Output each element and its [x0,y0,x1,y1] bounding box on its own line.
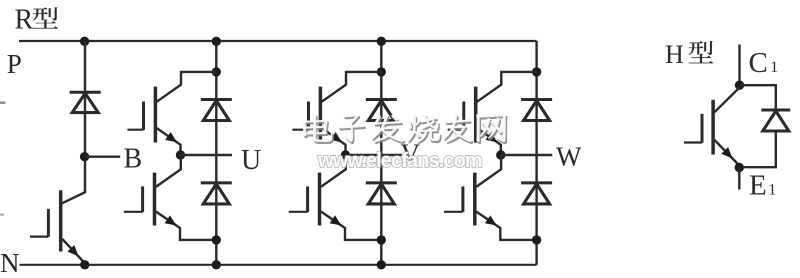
transistor Q4 (IGBT, V upper) [292,72,381,155]
svg-text:P: P [7,49,22,79]
node P junction on left branch [80,37,89,46]
wire E1 stub [738,168,740,190]
node E1 junction [735,163,744,172]
wire V midpoint stub [346,154,403,156]
svg-text:www.elecfans.com: www.elecfans.com [317,150,482,172]
transistor Q1 (IGBT, left R-branch) [30,190,85,263]
svg-text:B: B [124,144,143,175]
wire P rail [19,40,537,42]
node junction U collector tap [212,67,221,76]
transistor Q3 (IGBT, U lower) [124,155,217,240]
node junction V emitter tap [377,235,386,244]
wire W midpoint stub [501,154,553,156]
node U label [241,145,261,176]
transistor Q6 (IGBT, W upper) [448,72,537,155]
node junction W emitter tap [532,235,541,244]
wire H bottom link [740,131,776,167]
transistor Q2 (IGBT, U upper) [127,72,216,155]
node junction V midpoint [341,150,350,159]
node C1 label [749,47,779,79]
svg-text:U: U [241,145,261,176]
node junction W midpoint [496,150,505,159]
node junction V bottom rail [377,260,386,269]
node B label [124,144,143,175]
node P label [7,49,22,79]
node E1 label [749,169,776,201]
wire left branch vertical [84,41,86,192]
diode D7 (lower freewheel) [521,183,552,204]
node junction U top rail [212,37,221,46]
svg-text:N: N [0,248,20,278]
wire N rail [20,264,537,266]
label H type title [665,40,713,69]
diode D3 (lower freewheel) [201,183,232,204]
wire C1 stub [738,45,740,86]
node junction U emitter tap [212,235,221,244]
diode D5 (lower freewheel) [366,183,397,204]
diode D4 (upper freewheel) [366,100,397,121]
diode D2 (upper freewheel) [201,100,232,121]
wire H top link [740,85,776,110]
node W label [556,142,582,172]
label R type title [15,5,59,36]
node C1 junction [735,81,744,90]
node junction V top rail [377,37,386,46]
node junction V collector tap [377,67,386,76]
wire V leg vertical [380,41,382,265]
svg-text:H: H [665,40,684,69]
node N label [0,248,20,278]
node V label [401,139,421,169]
node N junction left [80,260,89,269]
transistor Q7 (IGBT, W lower) [444,155,536,240]
wire W leg vertical [535,41,537,265]
diode D6 (upper freewheel) [521,100,552,121]
svg-text:1: 1 [770,59,778,76]
node junction W collector tap [532,67,541,76]
svg-text:W: W [556,142,582,172]
wire U midpoint stub [181,154,233,156]
transistor Q5 (IGBT, V lower) [289,155,382,240]
diode D8 (H-type freewheel) [761,110,790,131]
svg-text:1: 1 [768,182,776,199]
svg-text:E: E [749,169,767,201]
node junction U midpoint [176,150,185,159]
wire node B stub [85,155,120,157]
diode D1 [70,92,101,112]
svg-text:C: C [749,47,768,79]
node junction U bottom rail [212,260,221,269]
svg-text:R: R [15,5,34,36]
node B junction [80,152,89,161]
wire U leg vertical [215,41,217,265]
transistor Q8 (IGBT, H-type) [684,88,740,166]
